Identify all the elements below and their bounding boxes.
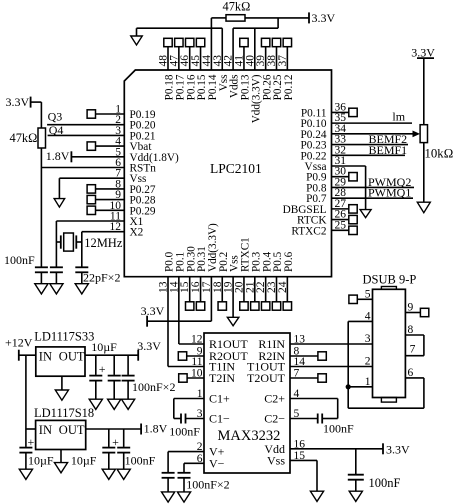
svg-text:3.3V: 3.3V	[141, 304, 165, 318]
pin 40 top (Vdd(3.3V))	[244, 55, 262, 124]
capacitor C6 100nF V-	[178, 473, 230, 492]
svg-text:100nF×2: 100nF×2	[186, 478, 229, 492]
pin 2 DSUB	[365, 356, 371, 368]
pin 7 MAX3232 right (T2OUT)	[247, 368, 300, 386]
ground under C2	[50, 284, 63, 294]
svg-text:8: 8	[408, 324, 414, 336]
ground under C8	[349, 491, 362, 501]
wire V+ to cap	[168, 452, 204, 473]
svg-text:3.3V: 3.3V	[386, 443, 410, 457]
wire U4 ground	[61, 450, 97, 468]
svg-text:12MHz: 12MHz	[84, 236, 123, 250]
svg-text:+: +	[99, 362, 106, 376]
wire PWMQ1 pin28	[332, 186, 414, 200]
svg-text:2: 2	[365, 356, 371, 368]
pin 45 top (P0.15)	[190, 38, 208, 100]
wire R1IN to DSUB pin3	[290, 343, 373, 345]
svg-text:4: 4	[365, 310, 371, 322]
wire Vss pin7 to ground	[59, 178, 124, 198]
pin 5 MAX3232 right (C2&#8722;)	[264, 408, 299, 426]
svg-text:BEMF1: BEMF1	[369, 143, 408, 157]
pin 12 MAX3232 left (R1OUT)	[191, 334, 248, 352]
pin 2 left (P0.20)	[115, 114, 156, 132]
pin 1 left (P0.19)	[87, 104, 156, 122]
wire Vdd pin16 to 3.3V	[290, 448, 383, 450]
pin 33 right (P0.23)	[300, 134, 346, 152]
ground pin7	[54, 199, 65, 208]
capacitor C2 22pF	[50, 267, 63, 283]
pin 35 right (P0.10)	[300, 112, 346, 130]
wire Vss pin15 to ground	[290, 460, 317, 491]
pin 6 MAX3232 left (V&#8722;)	[197, 453, 225, 471]
pin 8 DSUB	[405, 324, 424, 336]
regulator U4 LD1117S18	[34, 406, 94, 450]
pin 32 right (P0.22)	[300, 144, 346, 162]
ground under C13	[102, 469, 115, 479]
ground under C9	[89, 399, 102, 409]
svg-text:6: 6	[408, 367, 414, 379]
svg-text:C1−: C1−	[209, 412, 230, 426]
svg-text:OUT: OUT	[59, 423, 85, 437]
pin 22 bottom (P0.4)	[255, 251, 273, 310]
pin 21 bottom (P0.3)	[244, 251, 262, 310]
regulator U3 LD1117S33	[34, 330, 94, 377]
pin 13 bottom (P0.0)	[158, 251, 176, 293]
svg-text:LPC2101: LPC2101	[210, 161, 262, 176]
capacitor C12 10uF polarized input	[19, 429, 54, 469]
svg-text:1.8V: 1.8V	[144, 422, 168, 436]
svg-text:DSUB 9-P: DSUB 9-P	[363, 273, 417, 287]
capacitor C8 100nF Vdd	[348, 449, 401, 491]
wire 3.3V to 47k resistor	[31, 102, 42, 128]
capacitor C1 100nF	[4, 253, 48, 284]
wire DSUB 8-7 net	[423, 335, 425, 356]
ground U3	[55, 390, 68, 400]
svg-text:IN: IN	[39, 350, 52, 364]
pin 10 MAX3232 left (T2IN)	[191, 368, 235, 386]
svg-text:T2OUT: T2OUT	[247, 371, 286, 385]
wire V- to cap	[184, 463, 204, 472]
wire X2 pin12	[82, 232, 125, 268]
pin 14 bottom (P0.1)	[168, 252, 186, 293]
ground under pot	[417, 202, 430, 213]
pin 39 top (P0.26)	[255, 38, 273, 100]
svg-text:100nF×2: 100nF×2	[132, 380, 175, 394]
pin 48 top (P0.18)	[158, 38, 176, 100]
capacitor C5 100nF V+	[162, 473, 175, 492]
svg-text:1.8V: 1.8V	[46, 149, 70, 163]
pin 30 right (P0.9)	[306, 166, 357, 184]
wire U4 OUT to 1.8V	[86, 428, 141, 430]
resistor R3 10kOhm potentiometer	[420, 125, 453, 161]
svg-text:LD1117S18: LD1117S18	[34, 406, 94, 420]
pin 31 right (Vssa)	[305, 155, 347, 173]
svg-text:24: 24	[277, 281, 289, 293]
node 3.3V MAX	[383, 443, 410, 457]
pin 12 left (X2)	[110, 221, 144, 239]
wire Vss pin19 to ground	[232, 277, 234, 318]
wire 47k left to pin44	[211, 18, 226, 70]
pin 17 bottom (Vdd(3.3V))	[201, 223, 219, 293]
pin 8 MAX3232 right (R2IN)	[258, 346, 299, 364]
pin 20 bottom (RTXC1)	[233, 237, 251, 310]
node 1.8V to pin5	[46, 149, 125, 163]
svg-text:12: 12	[191, 334, 203, 346]
wire P0.1 pin14 to R1OUT	[179, 277, 204, 344]
pad T2OUT pin7	[290, 374, 326, 382]
pin 36 right (P0.11)	[301, 101, 357, 119]
IC U1 LPC2101 microcontroller body	[124, 70, 331, 277]
wire ground to pin43	[137, 28, 223, 70]
node 1.8V regulator	[141, 422, 168, 436]
svg-text:3: 3	[365, 333, 371, 345]
pin 24 bottom (P0.6)	[277, 251, 295, 310]
wire +12V to U3 IN	[19, 354, 36, 356]
pin 18 bottom (P0.2)	[212, 252, 230, 310]
ground top-left	[131, 36, 143, 45]
pin 11 left (X1)	[110, 211, 143, 229]
capacitor C9 10uF polarized	[89, 340, 117, 399]
ground under C10	[108, 399, 121, 409]
resistor R1 47kOhm pull-up	[223, 0, 251, 21]
junction DSUB pin1	[346, 384, 351, 389]
pin 16 MAX3232 right (Vdd)	[264, 438, 305, 456]
node 3.3V pin17	[141, 304, 165, 327]
pin 11 MAX3232 left (T1IN)	[191, 356, 235, 374]
svg-text:PWMQ1: PWMQ1	[368, 186, 411, 200]
ground pin31	[360, 210, 371, 218]
wire 47k right to 3.3V	[245, 17, 309, 19]
pin 9 DSUB	[405, 302, 428, 317]
svg-text:Q3: Q3	[48, 109, 63, 123]
svg-text:9: 9	[408, 302, 414, 314]
node 3.3V top	[309, 11, 336, 25]
pin 3 MAX3232 left (C1&#8722;)	[197, 408, 230, 426]
pin 15 bottom (P0.30)	[179, 246, 197, 310]
node 3.3V left	[6, 95, 31, 109]
capacitor C7 100nF C2	[290, 414, 354, 436]
svg-text:7: 7	[410, 344, 416, 356]
wire PWMQ2 pin29	[332, 175, 415, 189]
pin 27 right (DBGSEL)	[283, 198, 358, 216]
pin 19 bottom (Vss)	[223, 255, 241, 293]
pin 28 right (P0.7)	[306, 187, 346, 205]
svg-text:100nF: 100nF	[4, 253, 35, 267]
wire C2+ loop	[290, 399, 338, 419]
pin 29 right (P0.8)	[306, 176, 346, 194]
pin 46 top (P0.16)	[179, 38, 197, 100]
pin 7 DSUB	[405, 344, 424, 356]
pin 7 left (Vss)	[115, 168, 146, 186]
ground Vss	[310, 491, 323, 501]
svg-text:10kΩ: 10kΩ	[425, 147, 454, 161]
svg-text:5: 5	[365, 288, 371, 300]
ground under C1	[35, 284, 48, 294]
svg-text:lm: lm	[392, 110, 405, 124]
pin 5 DSUB	[349, 288, 373, 303]
pin 3 DSUB	[365, 333, 371, 345]
svg-text:+12V: +12V	[5, 336, 33, 350]
capacitor C10 100nF	[108, 355, 121, 399]
ground under C3	[75, 284, 88, 294]
wire T1OUT to DSUB pin2	[290, 366, 373, 368]
ground under C6	[177, 492, 190, 502]
svg-text:V−: V−	[209, 456, 225, 470]
pin 1 DSUB	[348, 376, 372, 388]
pad R2IN pin8	[290, 352, 326, 360]
svg-text:Q4: Q4	[49, 123, 64, 137]
ground under C11	[122, 399, 135, 409]
wire 3.3V branch to pins 42,40	[233, 18, 278, 70]
wire pin34 wiper arrow	[332, 130, 421, 137]
wire P0.0 pin13 to T1IN	[168, 277, 204, 367]
wire pot to ground	[423, 143, 425, 203]
svg-text:C1+: C1+	[209, 392, 230, 406]
pin 44 top (P0.14)	[201, 55, 219, 101]
pin 47 top (P0.17)	[168, 38, 186, 100]
node 3.3V regulator	[137, 339, 161, 361]
pin 37 top (P0.12)	[277, 38, 295, 100]
pin 8 left (P0.27)	[87, 178, 156, 196]
svg-text:100nF: 100nF	[169, 425, 200, 439]
wire BEMF2 pin33	[332, 132, 409, 146]
svg-text:Vss: Vss	[267, 453, 285, 467]
svg-text:47kΩ: 47kΩ	[223, 0, 251, 14]
pin 16 bottom (P0.31)	[190, 246, 208, 310]
wire BEMF1 pin32	[332, 143, 408, 157]
node 3.3V right top	[411, 46, 435, 60]
wire +12V to U4 IN	[26, 428, 36, 430]
pin 9 left (P0.28)	[87, 189, 156, 207]
pin 9 MAX3232 left (R2OUT)	[197, 346, 249, 364]
capacitor C11 100nF	[122, 355, 176, 399]
wire lm pin35	[332, 110, 413, 124]
pad T2IN pin10	[179, 374, 204, 382]
wire +12V branch down	[25, 355, 27, 429]
svg-text:OUT: OUT	[59, 350, 85, 364]
svg-text:X2: X2	[130, 227, 144, 239]
wire 3.3V to pot	[423, 58, 425, 125]
pin 3 left (P0.21)	[115, 125, 155, 143]
capacitor C4 100nF C1	[169, 414, 200, 439]
IC U2 MAX3232 transceiver body	[204, 333, 290, 473]
ground under C12	[19, 469, 32, 479]
wire DSUB 4-1-6 net	[348, 321, 424, 408]
pin 23 bottom (P0.5)	[266, 251, 284, 310]
svg-text:10µF: 10µF	[91, 340, 117, 354]
svg-text:37: 37	[277, 55, 289, 67]
pin 5 left (Vdd(1.8V))	[115, 146, 179, 164]
svg-text:IN: IN	[39, 423, 52, 437]
wire U3 ground	[61, 376, 63, 390]
ground under C14	[117, 469, 130, 479]
connector J1 DSUB 9-P body	[363, 273, 417, 403]
pin 6 DSUB	[408, 367, 414, 379]
pin 43 top (Vss)	[212, 55, 230, 92]
svg-text:100nF: 100nF	[323, 422, 354, 436]
pin 26 right (RTCK)	[297, 209, 357, 227]
pin 13 MAX3232 right (R1IN)	[258, 334, 305, 352]
resistor R2 47kOhm reset pull-up	[10, 128, 46, 148]
pad R2OUT pin9	[178, 352, 204, 360]
wire Vssa pin31 to ground	[332, 166, 366, 210]
capacitor C3 22pF	[75, 267, 120, 284]
wire X1 pin11	[56, 221, 124, 267]
wire Q4 to pin3	[48, 123, 125, 137]
svg-text:22pF×2: 22pF×2	[83, 271, 120, 285]
capacitor C13 10uF polarized output	[102, 429, 119, 469]
wire C1- to chip	[186, 418, 204, 420]
svg-text:100nF: 100nF	[369, 476, 401, 490]
pin 42 top (Vdds)	[223, 55, 241, 98]
capacitor C14 100nF output	[117, 429, 155, 469]
pin 2 MAX3232 left (V+)	[197, 441, 225, 459]
pin 25 right (RTXC2)	[291, 219, 357, 237]
svg-text:3.3V: 3.3V	[312, 11, 336, 25]
pin 4 left (Vbat)	[87, 136, 152, 154]
svg-text:100nF: 100nF	[125, 454, 156, 468]
svg-text:47kΩ: 47kΩ	[10, 131, 38, 145]
svg-text:P0.6: P0.6	[283, 251, 295, 272]
crystal Y1 12MHz	[56, 233, 122, 251]
svg-text:3.3V: 3.3V	[137, 339, 161, 353]
pin 15 MAX3232 right (Vss)	[267, 450, 305, 468]
svg-text:P0.12: P0.12	[283, 75, 295, 101]
wire U3 OUT to 3.3V	[85, 354, 138, 356]
svg-text:T2IN: T2IN	[209, 371, 235, 385]
svg-text:C2+: C2+	[264, 392, 285, 406]
pin 10 left (P0.29)	[87, 200, 156, 218]
wire C1+ loop	[174, 399, 204, 419]
svg-text:11: 11	[191, 356, 202, 368]
svg-text:C2−: C2−	[264, 412, 285, 426]
node +12V	[5, 336, 33, 361]
svg-text:1: 1	[365, 376, 371, 388]
ground U4	[54, 463, 67, 473]
wire Vdd pin17 to 3.3V	[147, 277, 211, 322]
svg-text:10µF: 10µF	[71, 454, 97, 468]
svg-text:10µF: 10µF	[28, 454, 54, 468]
ground under C5	[162, 492, 175, 502]
pin 4 DSUB	[348, 310, 372, 322]
pin 4 MAX3232 right (C2+)	[264, 388, 299, 406]
svg-text:25: 25	[335, 219, 347, 231]
pin 38 top (P0.25)	[266, 38, 284, 100]
pin 41 top (P0.13)	[233, 38, 251, 100]
svg-text:RTXC2: RTXC2	[291, 225, 326, 237]
pin 6 left (RSTn)	[115, 157, 156, 175]
svg-text:LD1117S33: LD1117S33	[34, 330, 94, 344]
pin 14 MAX3232 right (T1OUT)	[247, 356, 305, 374]
pin 1 MAX3232 left (C1+)	[197, 388, 230, 406]
ground pin19	[227, 317, 239, 326]
wire Q3 to pin2	[47, 109, 124, 124]
svg-text:3.3V: 3.3V	[6, 95, 30, 109]
wire RSTn pin6 to 47k and 100nF	[41, 148, 124, 267]
pin 34 right (P0.24)	[300, 123, 346, 141]
